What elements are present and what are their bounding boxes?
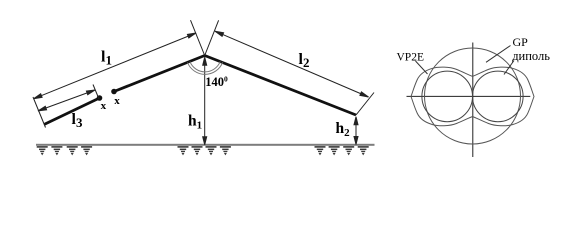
- extension line right end: [356, 93, 374, 116]
- dimension h2: [354, 117, 358, 145]
- leader line dipole: [504, 61, 514, 75]
- dipole pattern left circle: [422, 71, 473, 122]
- dimension line l2: [215, 31, 369, 97]
- angle arc outer: [188, 62, 223, 74]
- ground symbol group right: [315, 146, 326, 155]
- dimension line l3: [38, 90, 95, 111]
- svg-text:l2: l2: [299, 51, 310, 70]
- ground symbol group left: [37, 146, 48, 155]
- wire l3 stub: [44, 98, 100, 125]
- vertical axis of pattern: [472, 43, 474, 158]
- extension line apex up-right: [205, 20, 219, 55]
- svg-text:VP2E: VP2E: [397, 52, 424, 64]
- svg-text:GP: GP: [513, 35, 529, 49]
- dipole pattern right circle: [473, 71, 524, 122]
- svg-text:l1: l1: [101, 49, 112, 68]
- extension line lower-left: [33, 97, 46, 128]
- svg-text:диполь: диполь: [512, 49, 550, 63]
- wire left leg: [114, 56, 205, 92]
- wire right leg: [205, 56, 356, 116]
- leader line GP: [486, 46, 511, 63]
- dimension line l1: [34, 33, 197, 99]
- ground line: [36, 144, 375, 146]
- VP2E pattern outline: [411, 67, 534, 126]
- leader line VP2E: [416, 61, 428, 74]
- node feed dot B: [111, 89, 117, 95]
- ground symbol group middle: [178, 146, 189, 155]
- extension line apex up-left: [191, 20, 205, 55]
- dimension h1: [203, 57, 207, 145]
- horizontal axis of pattern: [407, 95, 531, 97]
- svg-text:x: x: [114, 95, 120, 107]
- extension line l3 upper end: [93, 85, 99, 100]
- GP pattern circle: [425, 48, 521, 144]
- node feed dot A: [97, 95, 103, 101]
- angle arc inner: [190, 62, 220, 72]
- svg-text:x: x: [101, 100, 107, 112]
